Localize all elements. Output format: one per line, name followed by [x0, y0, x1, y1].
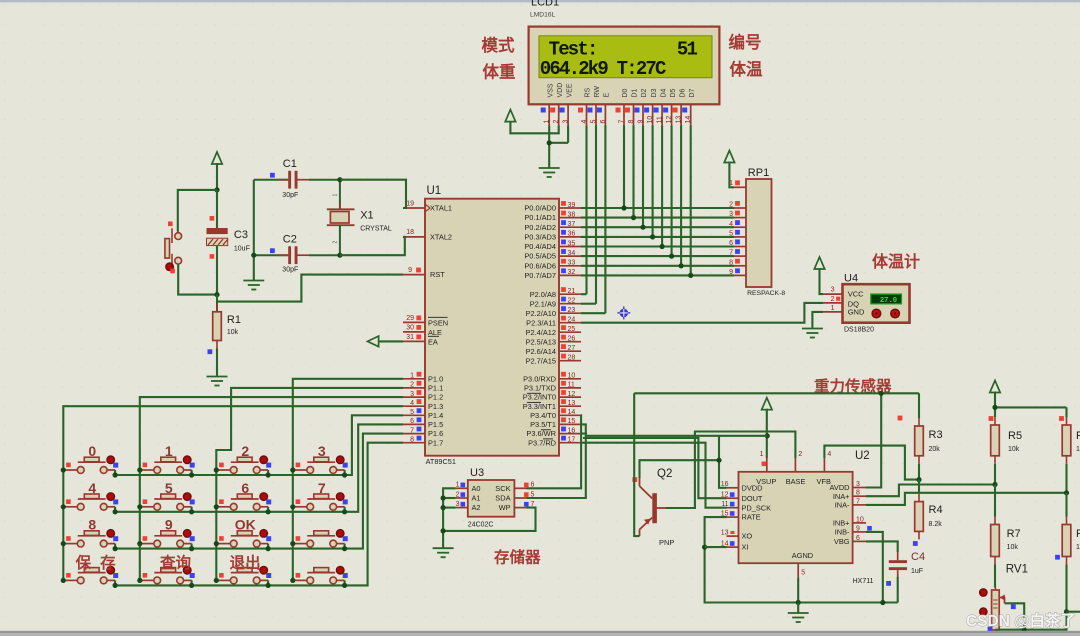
svg-text:2: 2 [333, 241, 339, 244]
push button keypad row4 col3 [216, 566, 271, 583]
svg-text:6: 6 [410, 418, 414, 425]
svg-text:P0.0/AD0: P0.0/AD0 [524, 204, 556, 213]
svg-text:28: 28 [568, 355, 576, 362]
node VSUP P3.6 junction [765, 433, 770, 438]
potentiometer RV1 [980, 564, 1028, 636]
svg-text:P3.7/RD: P3.7/RD [528, 438, 556, 447]
svg-text:5: 5 [591, 120, 598, 124]
svg-text:ALE: ALE [428, 328, 442, 337]
resistor R8 clipped [1055, 493, 1080, 612]
svg-text:37: 37 [568, 221, 576, 228]
wire right power rail [994, 392, 996, 418]
svg-text:P1.0: P1.0 [428, 374, 443, 383]
svg-text:7: 7 [318, 480, 326, 496]
U1 P2 pins [526, 287, 581, 365]
push button keypad row3 col3 [216, 530, 271, 547]
svg-text:2: 2 [798, 451, 802, 458]
bottom status bar [0, 631, 1080, 633]
svg-text:51: 51 [677, 39, 698, 61]
svg-text:27.0: 27.0 [880, 297, 897, 305]
svg-text:XI: XI [742, 543, 749, 552]
svg-text:INA-: INA- [835, 501, 850, 510]
svg-text:RS: RS [585, 87, 592, 97]
svg-text:15: 15 [568, 418, 576, 425]
svg-text:D7: D7 [689, 88, 696, 97]
svg-text:HX711: HX711 [853, 578, 874, 585]
wire P3.5 to U3 SDA [527, 424, 586, 498]
svg-text:3: 3 [831, 287, 835, 294]
svg-text:2: 2 [410, 382, 414, 389]
svg-text:26: 26 [568, 336, 576, 343]
svg-text:AGND: AGND [792, 551, 813, 560]
svg-text:INB-: INB- [835, 528, 850, 537]
node R3 R4 junction [916, 477, 921, 482]
svg-text:17: 17 [568, 437, 576, 444]
wire LCD E to P2.2 [604, 126, 606, 314]
svg-text:INB+: INB+ [833, 519, 850, 528]
U1 RST pin 9 [403, 274, 425, 276]
svg-text:XO: XO [742, 532, 753, 541]
transistor Q2 PNP [632, 468, 674, 547]
svg-text:064.2k9 T:27C: 064.2k9 T:27C [540, 58, 666, 80]
U4 DS18B20 body [843, 284, 910, 323]
svg-text:AVDD: AVDD [830, 483, 850, 492]
svg-text:9: 9 [165, 517, 173, 533]
wire VFB to R3 R4 node [824, 446, 919, 480]
svg-text:RESPACK-8: RESPACK-8 [747, 290, 785, 297]
svg-text:10k: 10k [1007, 544, 1019, 551]
svg-text:U3: U3 [470, 467, 484, 479]
svg-text:E: E [604, 93, 611, 98]
svg-text:7: 7 [856, 498, 860, 505]
push button keypad row1 col2 [140, 456, 195, 473]
keypad row wires with junctions [113, 415, 404, 588]
ground R1 [207, 376, 228, 378]
svg-text:P3.4/T0: P3.4/T0 [530, 411, 556, 420]
svg-text:2: 2 [456, 491, 460, 498]
svg-text:P3.1/TXD: P3.1/TXD [524, 384, 556, 393]
svg-text:R7: R7 [1076, 528, 1080, 540]
wire DOUT return line [583, 438, 727, 498]
svg-text:1: 1 [165, 443, 173, 459]
svg-text:U2: U2 [855, 450, 870, 462]
power arrow LCD VDD [505, 110, 515, 122]
svg-text:PNP: PNP [659, 538, 674, 547]
svg-text:P1.7: P1.7 [428, 438, 443, 447]
U1 P1 pins [403, 372, 443, 448]
svg-text:5: 5 [801, 570, 805, 577]
svg-text:RATE: RATE [742, 513, 761, 522]
keypad column wires with junctions [61, 379, 403, 583]
push button keypad row2 col4 [293, 493, 348, 510]
svg-text:SCK: SCK [495, 484, 510, 493]
svg-text:1: 1 [456, 482, 460, 489]
U3 left pins A0 A1 A2 [456, 482, 481, 513]
svg-text:D5: D5 [670, 88, 677, 97]
svg-text:P0.4/AD4: P0.4/AD4 [524, 242, 556, 251]
U1 EA pin 31 [403, 340, 425, 342]
node R6 R8 junction [1064, 490, 1069, 495]
svg-text:P2.5/A13: P2.5/A13 [526, 337, 556, 346]
svg-text:D1: D1 [632, 88, 639, 97]
svg-text:20k: 20k [929, 446, 941, 453]
wire LCD RW to P2.1 [595, 126, 597, 304]
svg-text:13: 13 [676, 116, 683, 124]
U1 P0 pins [524, 201, 581, 280]
svg-text:VCC: VCC [848, 290, 864, 299]
svg-text:R5: R5 [1008, 430, 1022, 442]
svg-text:P1.1: P1.1 [428, 384, 443, 393]
svg-text:EA: EA [428, 337, 438, 346]
svg-text:P3.0/RXD: P3.0/RXD [523, 374, 556, 383]
svg-text:P0.7/AD7: P0.7/AD7 [524, 271, 556, 280]
svg-text:1: 1 [410, 373, 414, 380]
svg-text:14: 14 [568, 409, 576, 416]
capacitor C3 [207, 190, 250, 259]
node R5 R7 junction [992, 482, 997, 487]
svg-text:体温计: 体温计 [872, 252, 920, 271]
svg-text:P3.2/INT0: P3.2/INT0 [523, 393, 556, 402]
svg-text:存储器: 存储器 [494, 548, 541, 567]
svg-text:2: 2 [241, 443, 249, 459]
svg-text:R7: R7 [1007, 528, 1021, 540]
wire RATE XI to AGND rail [705, 517, 898, 602]
power arrow right rail [990, 381, 1000, 393]
svg-text:23: 23 [568, 307, 576, 314]
push button keypad row2 col3 [216, 493, 271, 510]
svg-text:BASE: BASE [786, 477, 806, 486]
svg-text:D0: D0 [622, 88, 629, 97]
node R8 junction [1064, 609, 1069, 614]
svg-text:退出: 退出 [230, 553, 261, 572]
svg-text:4: 4 [88, 480, 96, 496]
wire INB- to AGND rail [866, 532, 883, 603]
svg-text:30pF: 30pF [282, 192, 298, 199]
node DVDD collector junction [716, 458, 721, 463]
svg-text:A1: A1 [472, 494, 481, 503]
svg-text:8.2k: 8.2k [929, 521, 943, 528]
svg-text:WP: WP [499, 503, 511, 512]
svg-text:10k: 10k [1076, 446, 1080, 453]
svg-text:10k: 10k [227, 329, 239, 336]
svg-text:9: 9 [638, 120, 645, 124]
svg-text:P2.2/A10: P2.2/A10 [526, 309, 556, 318]
svg-text:模式: 模式 [482, 35, 516, 55]
svg-text:3: 3 [563, 120, 570, 124]
svg-text:RV1: RV1 [1006, 564, 1028, 576]
push button keypad row4 col4 [293, 566, 348, 583]
svg-text:22: 22 [568, 298, 576, 305]
svg-text:CRYSTAL: CRYSTAL [360, 226, 392, 233]
svg-text:P0.1/AD1: P0.1/AD1 [524, 213, 556, 222]
wire P3.6 to VSUP node [581, 434, 767, 436]
node AVDD rail junction [879, 391, 884, 396]
svg-text:P3.6/WR: P3.6/WR [526, 429, 556, 438]
svg-text:8: 8 [856, 490, 860, 497]
svg-text:16: 16 [568, 427, 576, 434]
svg-text:11: 11 [568, 382, 575, 389]
svg-text:C1: C1 [283, 158, 297, 170]
svg-text:RP1: RP1 [748, 167, 769, 179]
svg-text:3: 3 [856, 481, 860, 488]
wire RST net [217, 275, 403, 302]
svg-text:19: 19 [406, 200, 414, 207]
resistor R1 [208, 295, 241, 354]
power arrow U4 VCC [814, 257, 824, 269]
svg-text:VSS: VSS [547, 83, 554, 97]
node AGND rail junction [796, 600, 801, 605]
svg-text:P2.6/A14: P2.6/A14 [526, 347, 556, 356]
push button keypad row3 col2 [140, 530, 195, 547]
svg-text:1: 1 [831, 305, 835, 312]
wire LCD RS to P2.0 [585, 126, 587, 295]
svg-text:10: 10 [647, 116, 654, 124]
svg-text:9: 9 [856, 525, 860, 532]
svg-text:36: 36 [568, 231, 576, 238]
svg-text:R4: R4 [929, 504, 943, 516]
wire DVDD vertical [719, 436, 727, 488]
U1 XTAL1 pin 19 [403, 207, 425, 209]
resistor R7 [991, 485, 1021, 588]
wire AGND to rail [797, 577, 799, 602]
push button keypad row3 col1 [63, 530, 118, 547]
power arrow HX711 VSUP [762, 398, 772, 410]
wire INA- to R6 R8 node [866, 493, 1067, 505]
wire P3.4 to U3 SCK [527, 415, 582, 488]
U2 HX711 body [739, 472, 853, 563]
wire C3 to junction bottom [216, 246, 218, 295]
svg-text:1: 1 [544, 120, 551, 124]
svg-text:U1: U1 [427, 185, 442, 197]
svg-text:3: 3 [456, 501, 460, 508]
wire R8 node to right edge [1067, 611, 1080, 613]
wire LCD VSS VEE to ground [548, 126, 550, 143]
svg-text:38: 38 [568, 211, 576, 218]
svg-text:D2: D2 [641, 88, 648, 97]
svg-text:PSEN: PSEN [428, 318, 448, 327]
svg-text:A2: A2 [472, 503, 481, 512]
svg-text:1uF: 1uF [911, 568, 923, 575]
svg-text:6: 6 [600, 120, 607, 124]
wire U3 A0 A1 A2 to ground [443, 488, 456, 547]
U3 right pins SCK SDA WP [495, 482, 534, 513]
U2 top pin stubs [766, 458, 768, 472]
svg-text:2: 2 [831, 296, 835, 303]
svg-text:P1.6: P1.6 [428, 429, 443, 438]
svg-text:P1.5: P1.5 [428, 420, 443, 429]
svg-text:12: 12 [666, 116, 673, 124]
U2 AGND pin 5 [797, 563, 799, 577]
wire U4 GND to ground [812, 312, 823, 328]
svg-text:3: 3 [410, 391, 414, 398]
push button keypad row4 col1 [63, 566, 118, 583]
svg-text:10: 10 [568, 373, 576, 380]
wire button bottom to junction [178, 264, 217, 295]
svg-text:DOUT: DOUT [742, 494, 763, 503]
svg-text:7: 7 [619, 120, 626, 124]
bus LCD data D0-D7 vertical wires with junctions [621, 126, 693, 279]
LCD pin stubs, names, numbers, state squares [541, 83, 696, 126]
U1 P3 pins [523, 372, 581, 448]
svg-text:DS18B20: DS18B20 [844, 327, 874, 334]
svg-text:查询: 查询 [160, 553, 191, 572]
svg-text:XTAL1: XTAL1 [430, 204, 452, 213]
U1 PSEN pin 29 [403, 321, 425, 323]
push button keypad row4 col2 [140, 566, 195, 583]
node C2 left junction [251, 253, 256, 258]
U1 AT89C51 body [425, 199, 559, 456]
svg-text:4: 4 [410, 400, 414, 407]
svg-text:2: 2 [553, 120, 560, 124]
svg-text:Q2: Q2 [657, 468, 672, 480]
ground AGND [788, 612, 809, 614]
push button keypad row1 col4 [293, 456, 348, 473]
node X1 top junction [337, 177, 342, 182]
capacitor C4 [866, 541, 925, 602]
svg-text:P2.3/A11: P2.3/A11 [526, 318, 556, 327]
svg-text:RST: RST [430, 270, 445, 279]
svg-text:PD_SCK: PD_SCK [742, 503, 772, 512]
wire bottom right rail [995, 629, 1067, 631]
svg-text:9: 9 [408, 267, 412, 274]
svg-text:5: 5 [410, 409, 414, 416]
svg-text:D3: D3 [651, 88, 658, 97]
svg-text:体重: 体重 [483, 62, 516, 82]
svg-text:C3: C3 [234, 229, 248, 241]
U1 XTAL2 pin 18 [403, 236, 425, 238]
wire junction to button [178, 190, 217, 232]
svg-text:LMD16L: LMD16L [530, 12, 556, 19]
node INB- rail junction [880, 600, 885, 605]
svg-text:18: 18 [406, 229, 414, 236]
svg-text:P1.3: P1.3 [428, 402, 443, 411]
svg-text:10k: 10k [1008, 446, 1020, 453]
wire Q2 base to U2 BASE [666, 432, 795, 509]
RP1 pins 2-9 [729, 201, 746, 276]
svg-text:体温: 体温 [730, 59, 764, 79]
push button keypad row1 col3 [216, 456, 271, 473]
svg-text:LCD1: LCD1 [531, 0, 559, 9]
svg-text:保存: 保存 [75, 553, 125, 572]
ground U3 [433, 547, 454, 549]
svg-text:编号: 编号 [729, 32, 762, 52]
resistor R6 clipped [1059, 416, 1080, 493]
svg-text:XTAL2: XTAL2 [430, 233, 452, 242]
wire XI stub link [705, 546, 727, 548]
U2 right pins [830, 481, 872, 546]
svg-text:RW: RW [594, 86, 601, 98]
push button keypad row1 col1 [63, 456, 118, 473]
U1 ALE pin 30 [403, 331, 425, 333]
svg-text:25: 25 [568, 326, 576, 333]
node right rail junction [992, 405, 997, 410]
node bottom rail junction [1022, 627, 1027, 632]
wire power to RP1 pin1 [729, 162, 734, 188]
svg-text:P0.3/AD3: P0.3/AD3 [524, 233, 556, 242]
svg-text:P3.5/T1: P3.5/T1 [530, 420, 556, 429]
svg-text:1: 1 [333, 194, 339, 197]
svg-text:11: 11 [657, 116, 664, 123]
crystal X1 [327, 180, 392, 256]
svg-text:35: 35 [568, 240, 576, 247]
svg-text:INA+: INA+ [833, 492, 850, 501]
svg-text:1: 1 [760, 451, 764, 458]
push button keypad row2 col1 [63, 493, 118, 510]
wire U3 WP loop to ground [443, 508, 535, 531]
wire AVDD to rail [866, 393, 881, 487]
svg-text:10k: 10k [1076, 544, 1080, 551]
svg-text:29: 29 [406, 315, 414, 322]
svg-text:30: 30 [406, 325, 414, 332]
resistor R3 [898, 393, 943, 479]
svg-text:13: 13 [568, 400, 576, 407]
svg-text:12: 12 [568, 391, 576, 398]
wire INA+ to R5 R7 node [866, 485, 995, 497]
svg-text:GND: GND [848, 308, 865, 317]
svg-text:P0.2/AD2: P0.2/AD2 [524, 223, 556, 232]
svg-text:34: 34 [568, 250, 576, 257]
wire XTAL2 [340, 237, 405, 255]
wire C1 C2 left vertical to ground [253, 180, 255, 280]
svg-text:30pF: 30pF [282, 267, 298, 274]
resistor R5 [989, 416, 1022, 484]
svg-text:5: 5 [165, 480, 173, 496]
svg-text:13: 13 [721, 530, 729, 537]
wire LCD VDD to power [510, 121, 558, 133]
svg-text:14: 14 [685, 116, 692, 124]
svg-text:P2.7/A15: P2.7/A15 [526, 356, 556, 365]
wire R8 to bottom rail [1065, 612, 1067, 630]
wire power to U4 VCC [820, 268, 824, 294]
push button RESET (vertical) [165, 222, 182, 274]
svg-text:8: 8 [410, 437, 414, 444]
svg-text:4: 4 [827, 451, 831, 458]
svg-text:24: 24 [568, 317, 576, 324]
svg-text:10: 10 [856, 516, 864, 523]
wire power to VSUP [766, 409, 768, 458]
wire gravity power rail [634, 392, 919, 394]
wire gravity rail to Q2 emitter [634, 393, 639, 536]
svg-text:U4: U4 [844, 273, 858, 285]
LCD green screen [539, 36, 712, 78]
wire Q2 collector to DVDD node [640, 460, 720, 478]
bus P0 to RP1 horizontal wires [581, 208, 734, 275]
svg-text:SDA: SDA [495, 494, 510, 503]
wire XTAL1 [340, 180, 406, 208]
power arrow reset circuit [212, 152, 222, 164]
U2 left pins [721, 481, 771, 552]
wire P3.7 to PD_SCK [581, 443, 727, 508]
svg-text:P0.6/AD6: P0.6/AD6 [524, 261, 556, 270]
svg-text:4: 4 [581, 120, 588, 124]
svg-text:A0: A0 [472, 484, 481, 493]
resistor R4 [913, 480, 943, 546]
svg-text:32: 32 [568, 269, 576, 276]
U3 24C02C body [468, 480, 515, 517]
svg-text:P1.2: P1.2 [428, 393, 443, 402]
top window strip [0, 0, 1080, 2]
ground LCD [539, 167, 560, 169]
svg-text:6: 6 [856, 535, 860, 542]
svg-text:D6: D6 [679, 88, 686, 97]
svg-text:6: 6 [241, 480, 249, 496]
ground C2 [243, 280, 264, 282]
svg-text:33: 33 [568, 260, 576, 267]
svg-text:X1: X1 [360, 210, 373, 222]
node junction reset bottom [214, 292, 219, 297]
svg-text:R3: R3 [929, 429, 943, 441]
origin marker blue crosshair [617, 306, 630, 319]
